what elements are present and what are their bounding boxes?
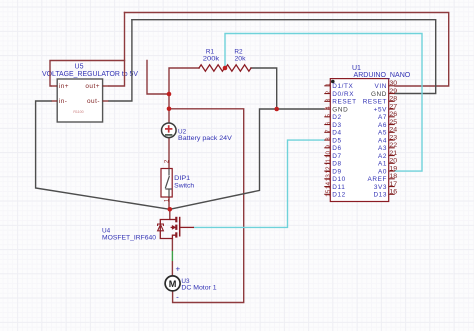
svg-text:9: 9 — [325, 145, 332, 149]
svg-text:26: 26 — [389, 111, 397, 118]
U1 pin 23 A4 — [378, 134, 398, 144]
svg-text:D4: D4 — [332, 130, 341, 137]
svg-text:A4: A4 — [378, 137, 387, 144]
svg-text:1: 1 — [325, 83, 332, 87]
wire: battery+ to motor- return — [169, 109, 244, 303]
svg-text:D2: D2 — [332, 114, 341, 121]
svg-text:A3: A3 — [378, 145, 387, 152]
switch DIP1 body — [161, 169, 172, 198]
DIP1 pin 2 number — [165, 159, 171, 163]
U1 pin 4 GND — [324, 106, 348, 114]
svg-text:24: 24 — [389, 127, 397, 134]
wire: gnd junction down to drain junction — [170, 109, 277, 209]
svg-text:M: M — [169, 279, 177, 289]
U1 pin 25 A6 — [378, 119, 398, 129]
U1 pin 16 D13 — [373, 189, 397, 199]
U5 value label VOLTAGE_REGULATOR to 5V — [42, 71, 138, 78]
U1 pin 10 D7 — [324, 151, 341, 160]
wire: top red rail to VIN — [125, 13, 449, 87]
svg-text:17: 17 — [389, 181, 397, 188]
wire: R2 to gnd junction — [251, 68, 277, 109]
svg-text:D13: D13 — [373, 192, 387, 199]
U1 pin 14 D11 — [324, 182, 345, 191]
U5 reference label — [75, 64, 84, 71]
wire: R1 left feed / battery column — [169, 68, 199, 123]
U1 pin 8 D5 — [324, 137, 341, 145]
svg-text:A5: A5 — [378, 130, 387, 137]
U1 pin 2 D0/RX — [324, 90, 354, 98]
svg-text:200k: 200k — [203, 56, 220, 63]
battery U2 — [162, 123, 177, 138]
motor polarity marks — [175, 265, 180, 302]
svg-text:GND: GND — [371, 91, 387, 98]
svg-text:RESET: RESET — [332, 99, 356, 106]
wire: out- riser to gray rail — [109, 20, 132, 101]
svg-text:4: 4 — [325, 106, 332, 110]
U1 pin 11 D8 — [324, 159, 341, 168]
svg-text:14: 14 — [325, 182, 332, 190]
svg-text:8: 8 — [325, 137, 332, 141]
svg-text:+5V: +5V — [374, 106, 387, 113]
svg-text:Battery pack 24V: Battery pack 24V — [178, 135, 233, 142]
svg-text:D3: D3 — [332, 122, 341, 129]
svg-text:3: 3 — [325, 98, 332, 102]
svg-text:21: 21 — [389, 150, 397, 157]
svg-text:A0: A0 — [378, 168, 387, 175]
svg-text:22: 22 — [389, 142, 397, 149]
U1 pin 21 A2 — [378, 150, 398, 160]
junction R1 R2 divider tap — [223, 66, 228, 71]
svg-text:D5: D5 — [332, 137, 341, 144]
svg-text:Switch: Switch — [174, 182, 194, 189]
U4 labels — [102, 227, 156, 241]
DIP1 pin 1 number — [165, 198, 171, 202]
wire: junction to MOSFET drain — [169, 209, 171, 219]
U1 pin 6 D3 — [324, 121, 341, 129]
svg-text:D10: D10 — [332, 176, 346, 183]
U1 pin 5 D2 — [324, 114, 341, 122]
wire: in- down left side — [36, 101, 170, 209]
U1 pin 19 A0 — [378, 165, 398, 175]
svg-text:VIN: VIN — [375, 83, 387, 90]
wire: green segment — [171, 251, 173, 261]
junction MOSFET drain — [168, 207, 173, 212]
svg-text:11: 11 — [325, 159, 332, 166]
U1 pin 22 A3 — [378, 142, 398, 152]
svg-text:D0/RX: D0/RX — [332, 91, 354, 98]
wire: divider tap to A0 — [225, 34, 422, 172]
svg-text:6: 6 — [325, 121, 332, 125]
svg-text:-: - — [176, 293, 179, 302]
svg-text:DC Motor 1: DC Motor 1 — [181, 285, 217, 292]
svg-text:D11: D11 — [332, 184, 345, 191]
svg-text:23: 23 — [389, 134, 397, 141]
svg-text:RESET: RESET — [363, 99, 387, 106]
junction GND net — [274, 107, 279, 112]
U1 pin 13 D10 — [324, 174, 346, 183]
junction battery / motor return — [167, 107, 172, 112]
svg-text:A7: A7 — [378, 114, 387, 121]
U1 pin 28 RESET — [363, 96, 398, 106]
wire: to motor + — [171, 261, 173, 276]
wire: in+ rail drop to battery node — [147, 61, 169, 95]
svg-text:7: 7 — [325, 129, 332, 133]
svg-text:U4: U4 — [102, 227, 111, 234]
wire: top gray rail to GND pin29 — [132, 20, 436, 94]
svg-text:D8: D8 — [332, 161, 341, 168]
svg-text:15: 15 — [325, 189, 332, 197]
svg-text:29: 29 — [389, 88, 397, 95]
svg-text:25: 25 — [389, 119, 397, 126]
svg-text:out-: out- — [87, 98, 100, 105]
U1 pin 29 GND — [371, 88, 398, 98]
svg-text:+: + — [175, 265, 180, 274]
svg-text:12: 12 — [325, 166, 332, 174]
svg-text:28: 28 — [389, 96, 397, 103]
U1 pin 1 D1/TX — [324, 83, 353, 91]
U1 pin 12 D9 — [324, 166, 341, 175]
svg-text:19: 19 — [389, 165, 397, 172]
svg-text:16: 16 — [389, 189, 397, 196]
svg-text:2: 2 — [325, 90, 332, 94]
svg-text:in-: in- — [59, 98, 68, 105]
svg-text:R1100: R1100 — [73, 110, 83, 114]
DIP1 labels — [174, 175, 194, 189]
svg-text:D6: D6 — [332, 145, 341, 152]
U3 labels — [181, 278, 217, 292]
svg-text:D12: D12 — [332, 192, 346, 199]
svg-text:3V3: 3V3 — [374, 184, 387, 191]
svg-text:D7: D7 — [332, 153, 341, 160]
U1 pin 7 D4 — [324, 129, 341, 137]
svg-text:A2: A2 — [378, 153, 387, 160]
svg-text:A6: A6 — [378, 122, 387, 129]
U1 pin 24 A5 — [378, 127, 398, 137]
transistor U4 MOSFET — [158, 217, 194, 239]
U1 pin 15 D12 — [324, 189, 346, 198]
U1 value label ARDUINO_NANO — [354, 72, 411, 79]
svg-text:GND: GND — [332, 106, 348, 113]
U1 pin 20 A1 — [378, 158, 398, 168]
wire: switch to drain junction — [168, 197, 170, 209]
svg-text:U1: U1 — [352, 65, 361, 72]
U1 pin 9 D6 — [324, 145, 341, 153]
resistor R1 — [199, 49, 225, 71]
svg-text:20k: 20k — [235, 56, 247, 63]
wire: gnd junction to Arduino GND pin4 — [277, 108, 325, 110]
op-amp U1 Arduino Nano body — [330, 79, 388, 202]
U5 pin stubs — [51, 86, 109, 101]
svg-text:5: 5 — [325, 114, 332, 118]
wire: regulator in+ loop — [50, 61, 125, 87]
svg-text:DIP1: DIP1 — [174, 175, 190, 182]
U1 pin 27 +5V — [374, 103, 398, 113]
wire: MOSFET source down (red) — [171, 239, 173, 252]
svg-text:10: 10 — [325, 151, 332, 159]
svg-text:D1/TX: D1/TX — [332, 83, 353, 90]
svg-text:27: 27 — [389, 103, 397, 110]
junction battery top / regulator — [167, 92, 172, 97]
svg-text:in+: in+ — [59, 83, 69, 90]
svg-text:20: 20 — [389, 158, 397, 165]
voltage regulator U5 body — [57, 79, 102, 122]
U2 labels — [178, 128, 233, 142]
wire: MOSFET gate to D5 — [194, 140, 325, 227]
U1 pin 3 RESET — [324, 98, 356, 106]
wire: battery- to switch — [168, 138, 170, 169]
svg-text:18: 18 — [389, 173, 397, 180]
svg-text:out+: out+ — [85, 83, 100, 90]
svg-text:13: 13 — [325, 174, 332, 182]
U1 pin 30 VIN — [375, 80, 398, 90]
wire: out+ riser to top rail — [109, 13, 125, 87]
svg-text:D9: D9 — [332, 168, 341, 175]
resistor R2 — [226, 49, 252, 71]
svg-text:AREF: AREF — [368, 176, 387, 183]
U1 pin 26 A7 — [378, 111, 398, 121]
svg-text:U5: U5 — [75, 64, 84, 71]
U1 reference label — [352, 65, 361, 72]
svg-text:30: 30 — [389, 80, 397, 87]
motor U3 — [165, 276, 180, 291]
U1 pin 18 AREF — [368, 173, 398, 183]
svg-text:ARDUINO_NANO: ARDUINO_NANO — [354, 72, 411, 79]
svg-text:MOSFET_IRF640: MOSFET_IRF640 — [102, 235, 156, 242]
U1 pin 17 3V3 — [374, 181, 398, 191]
svg-text:A1: A1 — [378, 161, 387, 168]
